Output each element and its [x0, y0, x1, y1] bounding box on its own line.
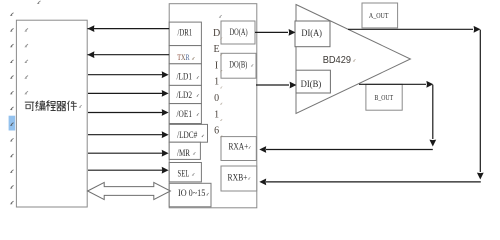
svg-text:DO(B): DO(B): [229, 59, 247, 69]
svg-text:/OE1: /OE1: [177, 109, 193, 119]
svg-text:DI(B): DI(B): [301, 79, 322, 90]
svg-text:/MR: /MR: [177, 148, 190, 158]
svg-text:D: D: [213, 28, 220, 39]
svg-text:RXB+: RXB+: [228, 172, 248, 182]
svg-text:/LDC#: /LDC#: [177, 130, 198, 140]
svg-text:6: 6: [214, 126, 219, 137]
svg-text:1: 1: [214, 109, 219, 120]
svg-text:/LD1: /LD1: [177, 72, 193, 82]
svg-text:1: 1: [214, 77, 219, 88]
svg-text:/DR1: /DR1: [178, 28, 193, 38]
svg-text:I: I: [215, 60, 218, 71]
svg-text:E: E: [214, 44, 220, 55]
svg-text:RXA+: RXA+: [229, 141, 249, 151]
svg-text:IO 0~15: IO 0~15: [178, 188, 206, 198]
svg-text:0: 0: [214, 93, 219, 104]
svg-text:DI(A): DI(A): [301, 28, 322, 39]
svg-text:TXR: TXR: [177, 53, 190, 62]
svg-text:/LD2: /LD2: [177, 90, 193, 100]
svg-text:B_OUT: B_OUT: [375, 93, 394, 102]
svg-text:DO(A): DO(A): [230, 27, 248, 37]
svg-text:BD429: BD429: [323, 54, 351, 66]
svg-text:A_OUT: A_OUT: [369, 11, 389, 20]
svg-text:SEL: SEL: [178, 169, 190, 179]
